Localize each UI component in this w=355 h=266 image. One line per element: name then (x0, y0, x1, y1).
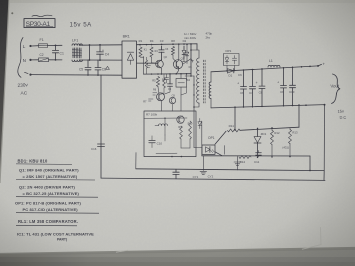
transistor Q3 (157, 93, 165, 101)
resistor R4 (150, 47, 153, 57)
resistor R8 (171, 47, 174, 56)
wire to ground line (309, 156, 311, 170)
ground line B (101, 178, 325, 180)
transformer core (203, 60, 205, 103)
resistor R12 (271, 127, 273, 128)
top edge darkening (9, 0, 355, 3)
fold crease bottom-right (302, 227, 321, 249)
capacitor C3 (161, 46, 163, 50)
capacitor C7a (169, 74, 171, 84)
small delta mark (106, 66, 110, 69)
controller sub-circuit box (144, 111, 196, 157)
Vout brace (331, 74, 339, 104)
secondary bottom rail (211, 105, 325, 108)
drain wire Q1 (183, 59, 191, 65)
opto to R11 wire (215, 131, 226, 144)
resistor R2 (145, 60, 148, 68)
sub box inner bottom line (156, 152, 177, 154)
wire link vertical (89, 44, 91, 46)
capacitor C4 with plus (99, 44, 101, 46)
transformer primary lead top (191, 50, 199, 58)
resistor R6b (163, 74, 165, 78)
primary mid rail (144, 73, 192, 75)
resistor R5 (156, 77, 159, 87)
feedback top wire (240, 127, 299, 130)
tap from rail x299 (298, 104, 300, 106)
small IC box U2 (176, 78, 186, 87)
transistor Q2 (137, 62, 156, 64)
output capacitor C7 (252, 70, 254, 87)
dark speck top-left (11, 12, 13, 14)
opto left wires (194, 147, 202, 149)
ground line A (136, 169, 324, 171)
diode D3 (191, 59, 194, 62)
wire N to C2 box (32, 59, 39, 61)
extra junction dots cluster (146, 44, 148, 46)
transformer T1 primary winding (197, 58, 199, 103)
tap from rail to R11 (234, 106, 236, 108)
wire choke to bridge mid (79, 59, 122, 61)
wire fuse to node (48, 44, 63, 46)
primary side corner wire (185, 75, 194, 77)
title box SP30-A1 (24, 19, 55, 28)
stray wire bits (181, 74, 187, 95)
AC input brace (18, 38, 23, 78)
feedback bottom wire (215, 152, 222, 156)
bottom darkening bands (0, 257, 355, 266)
ground symbol 1 (202, 156, 204, 171)
paper left edge shadow (0, 0, 9, 183)
zener near opto (198, 118, 202, 128)
resistor R13 (289, 128, 291, 130)
dark left table strip (0, 0, 13, 200)
left long vertical (100, 75, 102, 178)
output capacitor C9 (283, 68, 285, 86)
secondary top rail (211, 66, 318, 72)
capacitor C1 across lines (55, 45, 57, 50)
transistor Q1 (173, 60, 182, 69)
wire L to fuse (32, 45, 39, 47)
vertical rail x197 (196, 44, 198, 50)
output capacitor C6 (243, 70, 245, 87)
output capacitor C10 (292, 67, 294, 85)
wire C2 to choke (49, 59, 63, 61)
paper edge shadow bottom (0, 248, 355, 254)
secondary leads (210, 72, 212, 82)
junction dots on box bottom (171, 156, 173, 158)
TL431 ZD1 (257, 128, 259, 130)
resistor R14 (239, 156, 251, 159)
wire choke to bridge top (79, 44, 122, 46)
transistor Q4 (177, 116, 184, 123)
primary top rail (137, 43, 197, 46)
capacitor C3b (164, 74, 168, 83)
earth terminal and bottom rail (29, 74, 31, 76)
small crease bottom-left-center (116, 250, 128, 252)
Y-capacitor CY (175, 169, 177, 172)
output terminal minus (324, 104, 326, 106)
output capacitor C8 (261, 69, 263, 86)
transformer T1 secondary winding (209, 82, 211, 99)
capacitor C11 (258, 155, 260, 157)
capacitor C10p (151, 136, 153, 141)
inductor L2 (159, 124, 168, 126)
diode D2 (183, 46, 185, 50)
transistor Q5 (169, 97, 175, 103)
zener D5 (186, 44, 188, 46)
right vertical A-B (323, 171, 325, 181)
ground symbol 2 (237, 156, 239, 170)
transformer primary lead bottom (194, 103, 199, 107)
resistor R1 (139, 47, 142, 57)
capacitor C16 on left vertical (98, 143, 105, 145)
capacitor C5 (87, 60, 89, 67)
capacitor C6 (97, 60, 99, 67)
output terminal plus (317, 65, 319, 67)
